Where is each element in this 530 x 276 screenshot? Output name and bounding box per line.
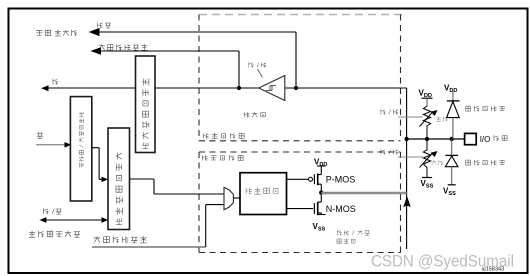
- node: pull column junction: [425, 137, 429, 141]
- label: on/off (pull-down): [381, 149, 398, 154]
- switch arrow pull-down: [420, 153, 434, 168]
- node: analog tap: [294, 86, 298, 90]
- register box 1: bit set/clear register: [70, 97, 91, 201]
- protection diode bottom: [451, 139, 453, 155]
- label: push-pull, open-drain: [337, 230, 370, 244]
- pmos gate bubble: [309, 177, 313, 181]
- label: to on-chip peripherals (dao pian shang wai she): [36, 30, 77, 36]
- wire: pmos gate line: [287, 178, 309, 180]
- arrowhead AF input (left): [90, 47, 101, 55]
- svg-text:N-MOS: N-MOS: [326, 204, 356, 214]
- wire: nmos gate line: [287, 208, 314, 210]
- label: on/off (trigger): [249, 62, 266, 67]
- wire: write arrow: [36, 144, 66, 146]
- node: AF input tap: [237, 86, 241, 90]
- label: protection diode (top): [466, 106, 505, 112]
- label: alternate function output: [94, 236, 147, 243]
- transistor N-MOS: [314, 202, 325, 215]
- arrowhead analog (left): [89, 28, 100, 36]
- power rail bar pull-up: [422, 97, 433, 99]
- wire: read/write double arrow: [45, 219, 103, 221]
- node: mos output junction: [319, 190, 323, 194]
- arrow: output to pin (up arrow on vertical): [404, 197, 411, 207]
- label: write (xie): [37, 133, 43, 138]
- wire: analog line: [97, 32, 296, 88]
- label: alternate function input (fu yong gong neng shu ru): [99, 44, 148, 50]
- register box 2: output data register: [108, 128, 130, 230]
- protection diode top: [447, 100, 460, 102]
- I/O pin square: [465, 133, 477, 144]
- wire: on/off to pull-up: [398, 116, 423, 118]
- ground rail bar pull-down: [422, 177, 432, 179]
- wire: mux output: [234, 197, 240, 199]
- label: protection diode (bottom): [466, 160, 505, 166]
- dashed box: input driver (outer): [199, 15, 402, 142]
- dashed box: output driver (inner): [199, 152, 401, 253]
- wire: read line / main input line: [46, 87, 259, 89]
- mux shape: [224, 187, 233, 209]
- wire: trigger input to pin corner: [285, 88, 407, 249]
- svg-text:ai158343: ai158343: [482, 267, 505, 273]
- wire: box2 output to mux: [130, 179, 225, 194]
- switch arrow pull-up: [420, 112, 434, 127]
- label: on/off (pull-up): [381, 109, 398, 114]
- node: pin vertical junction: [404, 137, 408, 141]
- wire: pin node line: [407, 138, 465, 140]
- label: trigger (chu fa qi): [244, 112, 265, 118]
- resistor pull-up (zigzag): [423, 106, 430, 139]
- ground rail bar diode col: [448, 184, 456, 186]
- wire: box1 to box2 connector: [92, 148, 103, 180]
- label: input driver: [203, 133, 244, 139]
- wire: AF output line: [92, 246, 206, 248]
- output control box: [240, 173, 287, 215]
- register box 3: input data register: [136, 56, 156, 153]
- wire: vdd stub to diode: [452, 92, 454, 102]
- schmitt trigger triangle: [259, 76, 285, 101]
- label: pull-up (shang la): [436, 117, 447, 122]
- hysteresis symbol: [266, 86, 276, 91]
- svg-text:P-MOS: P-MOS: [326, 175, 356, 185]
- label: output control: [246, 188, 278, 195]
- label: output driver: [202, 155, 243, 161]
- arrowhead read (left): [41, 85, 49, 91]
- label: read/write (du/xie): [43, 208, 61, 214]
- node: diode column junction: [450, 137, 454, 141]
- transistor P-MOS: [314, 166, 325, 202]
- wire: on/off to pull-down: [398, 156, 423, 158]
- resistor pull-down (zigzag): [423, 139, 430, 178]
- label: pull-down (xia la): [432, 160, 443, 165]
- label: from on-chip peripherals: [29, 231, 80, 237]
- svg-text:I/O: I/O: [480, 135, 491, 144]
- label: analog (mo ni): [97, 23, 111, 28]
- wire: mos output to pin column (thick gray): [321, 192, 406, 194]
- label: read (du): [53, 79, 58, 85]
- wire: AF input line: [99, 51, 239, 88]
